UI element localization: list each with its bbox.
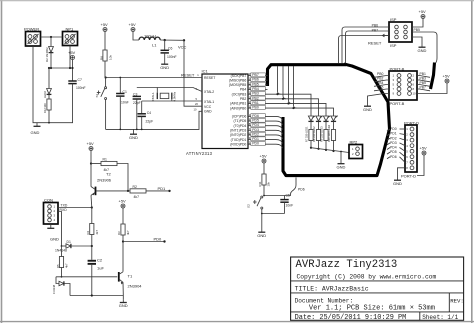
svg-text:Copyright (C) 2008 by www.ermi: Copyright (C) 2008 by www.ermicro.com [297, 273, 437, 280]
svg-text:+5V: +5V [443, 74, 451, 79]
svg-text:(RXD)PD0: (RXD)PD0 [230, 142, 246, 146]
svg-text:S2: S2 [247, 204, 251, 208]
svg-text:10nF: 10nF [286, 204, 294, 208]
svg-text:R2: R2 [133, 185, 137, 189]
svg-text:PB6: PB6 [377, 86, 384, 90]
svg-text:GND: GND [119, 303, 128, 308]
svg-text:PB3: PB3 [252, 92, 259, 96]
svg-text:PB5: PB5 [252, 82, 259, 86]
svg-text:4k7: 4k7 [134, 195, 140, 199]
svg-text:+5V: +5V [119, 199, 127, 204]
svg-text:D2 1N4002: D2 1N4002 [45, 47, 49, 62]
svg-text:PD2: PD2 [390, 136, 397, 140]
svg-text:PD6: PD6 [252, 114, 259, 118]
svg-text:(INT1)PD3: (INT1)PD3 [230, 128, 246, 132]
svg-text:GND: GND [31, 130, 40, 135]
svg-text:PD6: PD6 [390, 155, 397, 159]
svg-text:TXD: TXD [61, 203, 68, 207]
svg-text:PB7: PB7 [372, 29, 379, 33]
svg-text:GND: GND [257, 233, 266, 238]
svg-text:XTAL1: XTAL1 [204, 100, 214, 104]
svg-text:R7 330 LED1: R7 330 LED1 [305, 126, 309, 142]
svg-text:PB5: PB5 [414, 28, 421, 32]
svg-text:S1: S1 [95, 93, 99, 97]
svg-text:GND: GND [50, 237, 59, 242]
svg-text:PD4: PD4 [252, 123, 259, 127]
svg-text:+5V: +5V [129, 22, 137, 27]
svg-text:PB6: PB6 [252, 78, 259, 82]
svg-text:PD0: PD0 [252, 142, 259, 146]
svg-text:L1: L1 [152, 43, 157, 48]
svg-text:1uF: 1uF [97, 266, 104, 271]
svg-text:GND: GND [363, 107, 372, 112]
svg-text:+5V: +5V [260, 154, 268, 159]
svg-text:(AIN0)PB0: (AIN0)PB0 [230, 106, 246, 110]
svg-text:XTAL1: XTAL1 [151, 92, 155, 102]
svg-text:4k7: 4k7 [64, 263, 68, 268]
svg-text:ISP: ISP [390, 43, 397, 48]
svg-text:GND: GND [204, 110, 212, 114]
svg-text:(MOSI)PB5: (MOSI)PB5 [229, 83, 246, 87]
svg-text:10k: 10k [108, 55, 112, 60]
svg-text:1N4148: 1N4148 [55, 249, 67, 253]
svg-text:R6: R6 [99, 56, 103, 60]
svg-text:LED6: LED6 [43, 91, 47, 98]
svg-text:D1: D1 [67, 240, 71, 244]
svg-text:+5V: +5V [87, 141, 95, 146]
svg-text:+5V: +5V [68, 50, 76, 55]
svg-text:PB6: PB6 [372, 24, 379, 28]
svg-text:100nF: 100nF [167, 55, 177, 59]
svg-text:IC1: IC1 [202, 69, 209, 74]
svg-text:PD5: PD5 [252, 119, 259, 123]
svg-text:NP1: NP1 [66, 26, 75, 31]
svg-text:PB2: PB2 [377, 77, 384, 81]
svg-text:100nF: 100nF [76, 86, 86, 90]
svg-text:GND: GND [129, 135, 138, 140]
svg-text:PB7: PB7 [252, 73, 259, 77]
svg-text:ATTINY2313: ATTINY2313 [186, 151, 213, 156]
svg-text:+5V: +5V [419, 9, 427, 14]
svg-text:100uH: 100uH [144, 33, 156, 38]
svg-text:4k7: 4k7 [126, 230, 130, 235]
svg-text:RESET: RESET [368, 41, 382, 46]
svg-text:PD1: PD1 [158, 186, 167, 191]
svg-text:GND: GND [418, 48, 427, 53]
svg-text:PB5: PB5 [420, 81, 427, 85]
svg-text:PORT-B: PORT-B [390, 101, 405, 106]
svg-text:PB2: PB2 [252, 96, 259, 100]
svg-text:R10 330 LED4: R10 330 LED4 [327, 124, 331, 142]
svg-text:4k7: 4k7 [95, 230, 99, 235]
svg-text:(ICP)PD6: (ICP)PD6 [232, 115, 247, 119]
svg-text:PD4: PD4 [390, 146, 397, 150]
svg-text:22pF: 22pF [146, 120, 154, 124]
svg-text:GND: GND [337, 164, 346, 169]
svg-text:(T0)PD4: (T0)PD4 [233, 124, 246, 128]
svg-text:R4: R4 [86, 230, 90, 234]
svg-text:+5V: +5V [420, 146, 428, 151]
svg-text:RESET: RESET [204, 76, 215, 80]
svg-text:PB4: PB4 [252, 87, 259, 91]
svg-text:1N4148: 1N4148 [52, 284, 56, 294]
svg-text:AVRJazz Tiny2313: AVRJazz Tiny2313 [296, 259, 398, 271]
svg-text:POWER: POWER [24, 26, 39, 31]
svg-text:R9 330 LED3: R9 330 LED3 [320, 126, 324, 142]
svg-text:C2: C2 [97, 258, 103, 263]
svg-text:C3: C3 [133, 92, 137, 96]
svg-text:4.0MHz: 4.0MHz [173, 91, 177, 101]
svg-text:+5V: +5V [101, 22, 109, 27]
svg-text:PB3: PB3 [420, 77, 427, 81]
svg-text:PB0: PB0 [252, 106, 259, 110]
svg-text:PB4: PB4 [377, 81, 384, 85]
svg-text:PD2: PD2 [252, 132, 259, 136]
svg-text:Sheet: 1/1: Sheet: 1/1 [422, 314, 458, 321]
svg-text:T2: T2 [106, 171, 111, 176]
svg-text:10nF: 10nF [121, 100, 129, 104]
svg-text:PD0: PD0 [154, 236, 163, 241]
svg-text:PB2: PB2 [240, 97, 247, 101]
svg-text:T1: T1 [128, 274, 133, 279]
svg-text:PD5: PD5 [390, 150, 397, 154]
svg-text:R12 330: R12 330 [43, 103, 47, 113]
svg-text:PD3: PD3 [252, 128, 259, 132]
svg-text:PD0: PD0 [390, 127, 397, 131]
svg-text:(SCK)PB7: (SCK)PB7 [231, 74, 247, 78]
svg-text:10k: 10k [267, 181, 271, 186]
svg-text:2N3904: 2N3904 [128, 284, 143, 289]
svg-text:Date: 25/05/2011 9:10:29 PM: Date: 25/05/2011 9:10:29 PM [295, 314, 407, 322]
svg-text:TITLE: AVRJazzBasic: TITLE: AVRJazzBasic [295, 285, 369, 292]
svg-text:PB0: PB0 [377, 72, 384, 76]
svg-text:GND: GND [160, 65, 169, 70]
svg-text:RP2: RP2 [350, 140, 359, 145]
svg-text:PD1: PD1 [390, 132, 397, 136]
svg-text:RESET: RESET [181, 73, 195, 78]
svg-text:PB4: PB4 [240, 88, 247, 92]
svg-text:R1: R1 [103, 158, 107, 162]
svg-text:2N3906: 2N3906 [97, 177, 112, 182]
svg-text:PD6: PD6 [298, 188, 305, 192]
svg-text:CON: CON [44, 198, 53, 203]
svg-text:Ver 1.1; PCB Size: 61mm × 53mm: Ver 1.1; PCB Size: 61mm × 53mm [309, 304, 435, 312]
svg-text:C7: C7 [78, 78, 82, 82]
svg-text:PD3: PD3 [390, 141, 397, 145]
svg-text:(TXD)PD1: (TXD)PD1 [231, 138, 247, 142]
svg-text:(MISO)PB6: (MISO)PB6 [229, 78, 246, 82]
svg-text:VCC: VCC [204, 105, 212, 109]
svg-text:R8 330 LED2: R8 330 LED2 [312, 126, 316, 142]
svg-text:R5: R5 [56, 264, 60, 268]
svg-text:GND: GND [393, 181, 402, 186]
svg-text:PB1: PB1 [420, 72, 427, 76]
svg-text:(T1)PD5: (T1)PD5 [233, 119, 246, 123]
svg-text:PORT-D: PORT-D [404, 120, 419, 125]
svg-text:R11: R11 [258, 181, 262, 186]
svg-text:(AIN1)PB1: (AIN1)PB1 [230, 102, 246, 106]
svg-text:C4: C4 [147, 111, 151, 115]
svg-text:PB7: PB7 [420, 86, 427, 90]
svg-text:XTAL2: XTAL2 [204, 90, 214, 94]
svg-text:C1: C1 [123, 90, 127, 94]
svg-text:REV:: REV: [450, 297, 464, 304]
svg-text:ISP: ISP [390, 17, 397, 22]
svg-text:(INT0)PD2: (INT0)PD2 [230, 133, 246, 137]
svg-text:PORT-B: PORT-B [390, 66, 405, 71]
svg-text:VCC: VCC [178, 45, 187, 50]
svg-text:PORT-D: PORT-D [401, 174, 416, 179]
svg-text:PD1: PD1 [252, 137, 259, 141]
svg-text:C6: C6 [168, 47, 172, 51]
svg-text:R3: R3 [117, 231, 121, 235]
svg-text:PB1: PB1 [252, 101, 259, 105]
svg-text:(OCI)PB3: (OCI)PB3 [232, 92, 247, 96]
svg-text:10: 10 [413, 92, 417, 96]
